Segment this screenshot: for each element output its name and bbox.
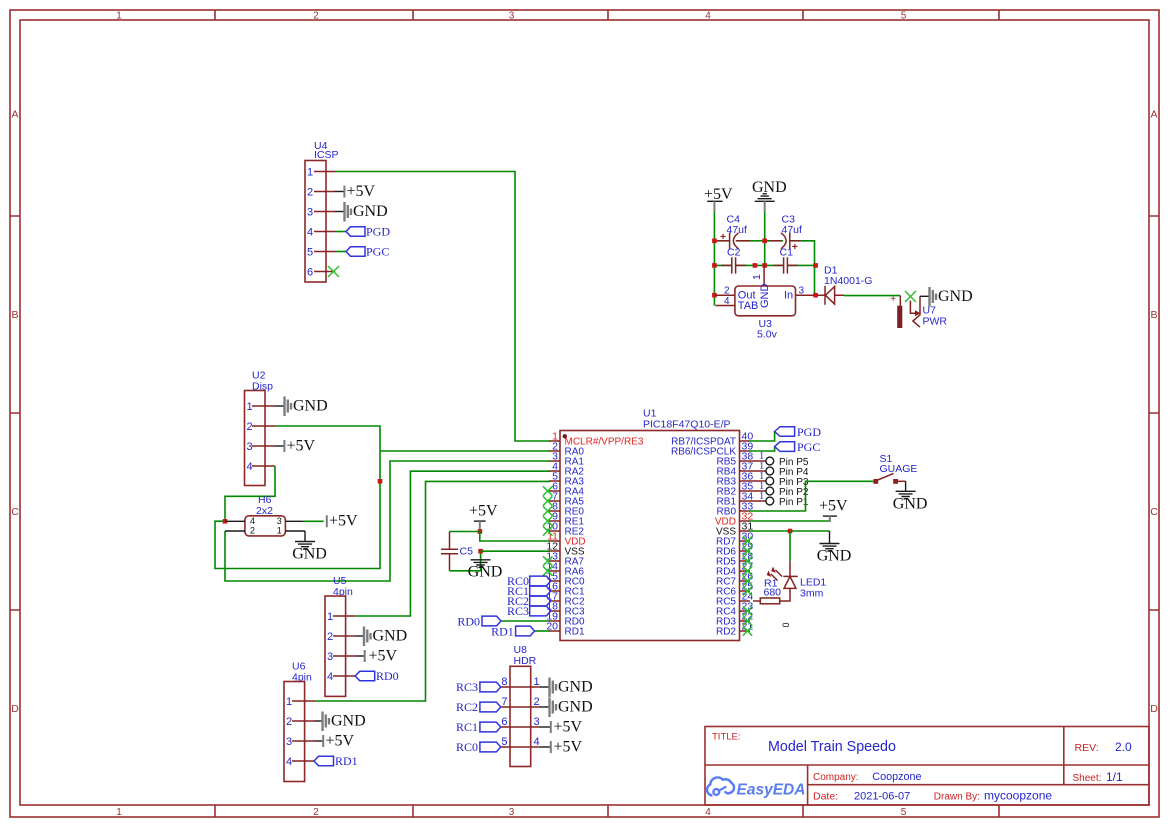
svg-text:RC1: RC1 — [456, 720, 478, 734]
svg-text:4: 4 — [705, 807, 711, 818]
ground GND at U6 pin2 — [315, 712, 366, 732]
svg-text:1: 1 — [751, 274, 763, 280]
title block table — [705, 727, 1149, 806]
earth ground GND below VSS node — [468, 560, 503, 581]
U1 left pin stubs 1-20 — [549, 441, 560, 631]
svg-text:B: B — [1150, 309, 1157, 321]
svg-text:Coopzone: Coopzone — [872, 771, 921, 783]
svg-text:PWR: PWR — [923, 316, 948, 328]
connector U4 ICSP — [305, 140, 339, 282]
svg-text:GND: GND — [558, 679, 593, 696]
earth ground GND at U1 pin31 — [817, 531, 852, 565]
svg-text:680: 680 — [764, 587, 782, 599]
ground GND at U4 pin3 — [335, 202, 388, 222]
connector U2 Disp — [245, 370, 276, 486]
svg-text:2: 2 — [327, 631, 333, 643]
frame row letters right — [1150, 109, 1158, 716]
U1 left pin names — [565, 437, 644, 638]
svg-text:4: 4 — [247, 461, 253, 473]
svg-text:3: 3 — [307, 207, 313, 219]
svg-text:2: 2 — [534, 696, 540, 708]
svg-text:REV:: REV: — [1075, 742, 1099, 754]
earth ground GND at S1 — [893, 481, 928, 512]
svg-text:PGC: PGC — [366, 245, 389, 259]
U1 left pin numbers — [546, 431, 558, 633]
svg-text:+5V: +5V — [554, 739, 583, 756]
svg-text:Pin P1: Pin P1 — [779, 497, 809, 508]
polarized capacitor C4 47uf — [720, 214, 747, 259]
svg-text:1: 1 — [116, 11, 122, 22]
svg-text:A: A — [11, 109, 18, 121]
no-connect X at U4 pin6 — [328, 266, 339, 277]
wire net RA1: H6 pin2 to U1 pin3 — [225, 461, 550, 581]
LED LED1 3mm — [767, 561, 827, 601]
wire U4 pin1 to U1 pin1 (MCLR) — [335, 172, 550, 442]
test point Pin P5 at U1 pin38 — [759, 451, 809, 468]
wire junction down to LED1 — [789, 531, 791, 561]
svg-text:+5V: +5V — [347, 183, 376, 200]
power flag +5V at U5 pin3 — [356, 648, 398, 665]
net flag PGC at U4 pin5 — [335, 245, 389, 259]
wire U2 pin4 down to H6 junction — [225, 466, 275, 521]
svg-text:1N4001-G: 1N4001-G — [824, 275, 872, 287]
ground GND at U8 pin1 — [540, 678, 593, 698]
junction dots on GND rail — [762, 239, 767, 244]
junction dots on input rail — [813, 263, 818, 268]
junction VSS node — [478, 549, 483, 554]
wire net RA2: U5 pin1 to U1 pin4 — [356, 471, 550, 616]
power flag +5V at U6 pin3 — [315, 733, 355, 750]
capacitor C2 — [732, 257, 736, 273]
svg-text:GND: GND — [292, 546, 327, 563]
svg-text:5.0v: 5.0v — [757, 329, 778, 341]
connector U6 4pin — [284, 661, 315, 782]
power flag +5V at U8 pin3 — [540, 719, 583, 736]
svg-text:4: 4 — [307, 227, 313, 239]
svg-text:1: 1 — [116, 807, 122, 818]
svg-text:GND: GND — [558, 699, 593, 716]
svg-text:2: 2 — [286, 716, 292, 728]
svg-text:GND: GND — [759, 284, 771, 309]
junction dots on +5V rail — [712, 239, 717, 244]
svg-text:RC0: RC0 — [456, 740, 478, 754]
svg-text:6: 6 — [501, 716, 507, 728]
wire U1 pin32 (VDD) to +5V — [750, 517, 830, 521]
svg-text:GND: GND — [331, 713, 366, 730]
IC U1 PIC18F47Q10-E/P — [560, 408, 740, 641]
U1 right pin stubs 21-40 — [740, 441, 751, 631]
svg-text:In: In — [784, 290, 793, 302]
svg-text:HDR: HDR — [514, 655, 537, 667]
svg-text:4: 4 — [724, 296, 730, 307]
svg-text:1: 1 — [327, 611, 333, 623]
svg-text:0: 0 — [781, 622, 791, 627]
test point Pin P2 at U1 pin35 — [759, 481, 809, 498]
frame column numbers bottom — [116, 807, 907, 818]
svg-text:2021-06-07: 2021-06-07 — [854, 791, 910, 803]
svg-text:47uf: 47uf — [782, 224, 803, 236]
svg-text:GND: GND — [893, 496, 928, 513]
capacitor C5 — [441, 532, 473, 571]
power flag +5V at U1 pin32 — [819, 498, 848, 523]
net flag RD0 at U1 pin19 — [457, 615, 550, 629]
junction on RA0 vertical — [378, 479, 383, 484]
wire U1 pin33 (RB0) to switch S1 — [750, 481, 874, 511]
svg-text:1: 1 — [307, 167, 313, 179]
capacitor pin leads row2 — [721, 264, 798, 266]
svg-text:D: D — [11, 703, 19, 715]
svg-text:EasyEDA: EasyEDA — [737, 782, 806, 799]
svg-text:5: 5 — [501, 736, 507, 748]
svg-text:1: 1 — [247, 401, 253, 413]
svg-text:5: 5 — [901, 807, 907, 818]
wire net RA0: U2 pin2 / H6 pin4 to U1 pin2 — [215, 426, 550, 569]
ground GND at U2 pin1 — [275, 397, 328, 417]
svg-text:C: C — [11, 506, 19, 518]
svg-text:RD0: RD0 — [457, 615, 480, 629]
switch S1 GUAGE — [873, 453, 917, 484]
svg-text:GND: GND — [353, 203, 388, 220]
svg-text:Sheet:: Sheet: — [1073, 773, 1102, 784]
svg-text:GND: GND — [293, 398, 328, 415]
net flag RC0 at U1 pin15 — [507, 574, 551, 588]
wire U1 pin31 (VSS) to GND and LED — [750, 530, 830, 532]
svg-text:+5V: +5V — [287, 438, 316, 455]
wire net RA3: U6 pin1 to U1 pin5 — [315, 481, 550, 701]
svg-text:C: C — [1150, 506, 1158, 518]
svg-text:RD1: RD1 — [565, 627, 585, 638]
svg-text:GUAGE: GUAGE — [880, 463, 918, 475]
svg-text:4: 4 — [534, 736, 540, 748]
U1 test point pin stubs 34-38 — [740, 461, 767, 501]
wire GND vertical rail — [764, 211, 766, 265]
net flag RC2 at U8 pin7 — [456, 700, 501, 714]
svg-text:3: 3 — [509, 807, 515, 818]
svg-text:Model Train Speedo: Model Train Speedo — [768, 739, 896, 755]
svg-text:1: 1 — [759, 491, 764, 502]
svg-text:2: 2 — [250, 526, 255, 536]
net flag RC1 at U8 pin6 — [456, 720, 501, 734]
no-connect X at U7 middle pin — [905, 291, 916, 302]
wire U1 pin40 to PGD flag — [750, 432, 775, 442]
svg-text:4: 4 — [705, 11, 711, 22]
junction below +5V (VDD node) — [478, 529, 483, 534]
svg-text:RD2: RD2 — [716, 627, 736, 638]
svg-text:6: 6 — [307, 267, 313, 279]
test point Pin P3 at U1 pin36 — [759, 471, 809, 488]
ground GND at U7 — [920, 287, 973, 307]
test point Pin P4 at U1 pin37 — [759, 461, 809, 478]
svg-text:A: A — [1150, 109, 1157, 121]
earth ground GND at H6 pin1 — [292, 531, 327, 563]
connector U5 4pin — [325, 575, 356, 696]
svg-text:3: 3 — [799, 286, 805, 297]
diode D1 1N4001-G — [817, 265, 872, 305]
power flag +5V at U2 pin3 — [275, 438, 316, 455]
ground GND at U8 pin2 — [540, 698, 593, 718]
svg-text:Company:: Company: — [813, 772, 859, 783]
frame column numbers top — [116, 11, 907, 22]
U1 right pin numbers — [742, 431, 754, 633]
resistor R1 680 — [753, 578, 781, 604]
U1 right no-connect X marks pins 21-23,25-30 — [743, 536, 752, 635]
power flag +5V above C5 — [469, 503, 498, 531]
svg-text:PGD: PGD — [366, 225, 390, 239]
svg-text:RC3: RC3 — [456, 680, 478, 694]
svg-text:D: D — [1150, 703, 1158, 715]
wire +5V node to C5 top — [450, 531, 480, 533]
svg-text:8: 8 — [501, 676, 507, 688]
svg-text:2.0: 2.0 — [1115, 740, 1132, 754]
svg-text:1/1: 1/1 — [1106, 770, 1123, 784]
svg-text:Drawn By:: Drawn By: — [934, 792, 980, 803]
svg-text:PGD: PGD — [797, 425, 821, 439]
svg-text:GND: GND — [938, 288, 973, 305]
net flag PGC — [775, 440, 821, 454]
svg-text:+5V: +5V — [554, 719, 583, 736]
svg-text:2: 2 — [313, 11, 319, 22]
svg-text:+5V: +5V — [326, 733, 355, 750]
test point Pin P1 at U1 pin34 — [759, 491, 809, 508]
extra junction dot row2 — [753, 263, 758, 268]
svg-text:3: 3 — [286, 736, 292, 748]
svg-text:5: 5 — [307, 247, 313, 259]
U1 right pin names — [671, 437, 736, 638]
svg-text:3: 3 — [277, 516, 282, 526]
net flag RC1 at U1 pin16 — [507, 584, 551, 598]
earth ground GND (supply section, inverted) — [752, 179, 787, 211]
svg-text:TAB: TAB — [738, 300, 759, 312]
svg-text:RC2: RC2 — [456, 700, 478, 714]
capacitor C1 — [784, 257, 788, 273]
ground GND at U5 pin2 — [356, 627, 407, 647]
svg-text:TITLE:: TITLE: — [712, 732, 741, 743]
svg-text:+5V: +5V — [329, 513, 358, 530]
net flag RC2 at U1 pin17 — [507, 594, 551, 608]
EasyEDA logo — [707, 777, 805, 798]
net flag RC3 at U8 pin8 — [456, 680, 501, 694]
svg-text:4: 4 — [286, 756, 292, 768]
svg-text:PIC18F47Q10-E/P: PIC18F47Q10-E/P — [643, 419, 731, 431]
svg-text:mycoopzone: mycoopzone — [984, 789, 1052, 803]
svg-text:RD1: RD1 — [335, 754, 358, 768]
svg-text:3: 3 — [327, 651, 333, 663]
net flag RC3 at U1 pin18 — [507, 604, 551, 618]
svg-text:+5V: +5V — [369, 648, 398, 665]
svg-text:2: 2 — [313, 807, 319, 818]
svg-text:RD0: RD0 — [376, 669, 399, 683]
svg-text:GND: GND — [373, 628, 408, 645]
svg-text:7: 7 — [501, 696, 507, 708]
U1 left no-connect X marks pins 6-10,13,14 — [543, 486, 552, 575]
svg-text:+: + — [890, 294, 896, 305]
polarized capacitor C3 47uf — [780, 214, 803, 259]
svg-text:GND: GND — [752, 179, 787, 196]
svg-text:3mm: 3mm — [800, 588, 824, 600]
junction at LED branch — [788, 529, 793, 534]
connector U7 PWR barrel jack — [890, 294, 947, 328]
net flag RD1 at U1 pin20 — [491, 625, 550, 639]
svg-text:GND: GND — [817, 548, 852, 565]
svg-text:GND: GND — [468, 564, 503, 581]
power flag +5V at U8 pin4 — [540, 739, 583, 756]
header H6 2x2 — [225, 494, 305, 536]
capacitor pin leads row1 — [717, 240, 801, 242]
power flag +5V at H6 pin3 — [304, 513, 358, 530]
svg-text:2: 2 — [307, 187, 313, 199]
svg-text:3: 3 — [247, 441, 253, 453]
svg-text:RC3: RC3 — [507, 604, 529, 618]
svg-text:C1: C1 — [780, 247, 794, 259]
connector U8 HDR — [500, 644, 540, 767]
junction at H6 pin4 — [223, 519, 228, 524]
power flag +5V at U4 pin2 — [335, 183, 376, 200]
wire VSS node to U1 pin12 — [481, 550, 550, 552]
svg-text:3: 3 — [534, 716, 540, 728]
wire D1 to connector U7 — [844, 295, 900, 297]
svg-text:ICSP: ICSP — [314, 149, 339, 161]
net flag RD0 at U5 pin4 — [355, 669, 398, 683]
svg-text:4: 4 — [250, 516, 255, 526]
wire U1 pin39 to PGC flag — [750, 447, 775, 451]
svg-text:+5V: +5V — [819, 498, 848, 515]
svg-text:+5V: +5V — [704, 186, 733, 203]
power flag +5V (supply section) — [704, 186, 733, 212]
svg-text:1: 1 — [277, 526, 282, 536]
net flag RD1 at U6 pin4 — [314, 754, 358, 768]
svg-text:C2: C2 — [727, 247, 741, 259]
svg-text:PGC: PGC — [797, 440, 820, 454]
net flag PGD at U4 pin4 — [335, 225, 390, 239]
net flag PGD — [775, 425, 822, 439]
svg-text:B: B — [11, 309, 18, 321]
svg-text:C5: C5 — [460, 546, 474, 558]
svg-text:+5V: +5V — [469, 503, 498, 520]
svg-text:RD1: RD1 — [491, 625, 514, 639]
wire C5 bottom to VSS node — [450, 551, 481, 571]
wire second cap row — [714, 264, 814, 266]
svg-text:Date:: Date: — [813, 791, 838, 803]
regulator U3 5.0v — [715, 265, 814, 340]
svg-text:1: 1 — [534, 676, 540, 688]
wire +5V vertical rail — [713, 211, 715, 305]
svg-text:2: 2 — [247, 421, 253, 433]
svg-text:5: 5 — [901, 11, 907, 22]
frame row letters left — [11, 109, 19, 716]
svg-text:4: 4 — [327, 671, 333, 683]
net flag RC0 at U8 pin5 — [456, 740, 501, 754]
wire VDD node to U1 pin11 — [480, 532, 550, 542]
svg-text:3: 3 — [509, 11, 515, 22]
svg-text:1: 1 — [286, 696, 292, 708]
wire top cap row — [714, 241, 814, 295]
